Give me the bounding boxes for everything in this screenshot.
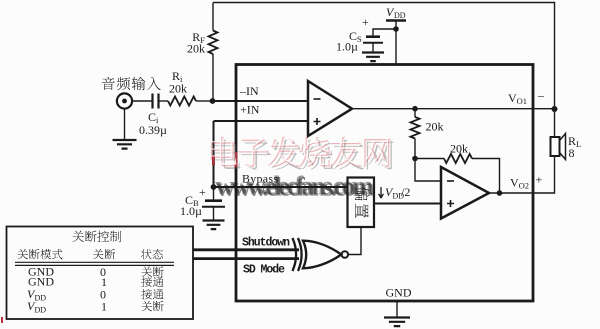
svg-text:+: + [362, 15, 369, 29]
node: -IN junction (RF/Ri) [210, 98, 216, 104]
op-amp A1 [308, 81, 352, 136]
svg-text:–: – [537, 88, 545, 102]
svg-text:GND: GND [386, 286, 412, 300]
ground (CB) [203, 221, 225, 230]
svg-text:20k: 20k [426, 120, 444, 134]
svg-text:www.elecfans.com: www.elecfans.com [215, 171, 373, 200]
svg-text:VO1: VO1 [508, 91, 527, 106]
wire: A2 output VO2 net [489, 156, 555, 193]
resistor RF [212, 3, 214, 31]
svg-text:+: + [199, 185, 206, 199]
svg-text:+IN: +IN [240, 103, 260, 117]
wire: bypass net [214, 186, 348, 188]
header 关断模式 [17, 249, 28, 259]
svg-text:/2: /2 [401, 185, 410, 199]
wire: A1 output VO1 net [352, 108, 555, 110]
node: VDD/CS junction [393, 26, 399, 32]
svg-text:0.39µ: 0.39µ [139, 123, 167, 137]
wire: junction to A2 feedback resistor [415, 158, 444, 160]
svg-text:1.0µ: 1.0µ [336, 40, 358, 54]
svg-text:DD: DD [35, 294, 47, 303]
svg-text:20k: 20k [169, 82, 187, 96]
svg-text:+: + [536, 173, 543, 187]
node: 20k junction [412, 156, 418, 162]
capacitor CB [213, 187, 215, 200]
svg-text:1: 1 [101, 300, 107, 314]
wire: +IN down to bypass node [213, 121, 215, 187]
label 音频输入 (audio input) [102, 77, 115, 90]
label VDD/2 with arrow [379, 187, 384, 198]
wire: Ri to -IN junction [196, 100, 212, 102]
svg-text:20k: 20k [187, 42, 205, 56]
wire: top feedback rail from RF to VO1 node [213, 3, 555, 110]
svg-text:8: 8 [569, 146, 575, 160]
capacitor Ci [153, 94, 159, 109]
watermark 电子发烧友网 [210, 136, 394, 170]
wire: -IN into IC [213, 100, 309, 102]
table title 关断控制 [73, 231, 85, 242]
wire: junction down to A2 minus input [415, 159, 441, 182]
wire: Ci to Ri [159, 100, 169, 102]
wire: SD mode control [193, 257, 299, 260]
bias block 偏置 [348, 178, 375, 228]
resistor Ri [168, 97, 196, 106]
node: CB junction [211, 184, 217, 190]
wire: VDD to CS [373, 29, 396, 36]
resistor 20k (A2 feedback) [444, 154, 472, 163]
node: VO1 speaker junction [552, 106, 558, 112]
svg-text:DD: DD [35, 306, 47, 315]
svg-text:Shutdown: Shutdown [242, 237, 290, 250]
wire: +IN into IC [214, 120, 309, 122]
svg-text:DD: DD [394, 11, 406, 20]
svg-text:1.0µ: 1.0µ [180, 204, 202, 218]
op-amp A2 [441, 167, 489, 219]
ground (input) [113, 140, 137, 149]
wire: shutdown control [193, 248, 299, 251]
svg-text:VO2: VO2 [510, 176, 529, 191]
wire: connector to ground [124, 109, 126, 140]
node: VO2 junction [497, 190, 503, 196]
wire: VDD/2 to A2 plus input [374, 203, 441, 205]
red artifact marks on lines under watermark [214, 152, 237, 167]
svg-text:20k: 20k [450, 142, 468, 156]
node: VO1/20k junction [412, 106, 418, 112]
ground (IC GND) [384, 318, 410, 327]
wire: VO1 node down to speaker [554, 109, 556, 137]
capacitor CS [366, 35, 380, 38]
svg-text:–IN: –IN [239, 84, 259, 98]
resistor 20k (A2 input) [414, 109, 416, 117]
VDD power symbol [386, 19, 406, 22]
svg-text:SD Mode: SD Mode [243, 264, 285, 277]
audio input connector J1 [117, 93, 132, 108]
wire: connector to Ci [132, 100, 152, 102]
wire: gate output to bias block [348, 227, 361, 255]
table header rule [15, 261, 174, 263]
header 关断 [93, 249, 104, 259]
header 状态 [141, 249, 152, 259]
XNOR gate [293, 238, 302, 271]
shutdown control truth table [7, 227, 194, 320]
wire: GND pin to ground [396, 301, 398, 317]
ground (CS) [362, 53, 384, 62]
speaker RL [551, 137, 560, 156]
IC package box [236, 65, 533, 302]
